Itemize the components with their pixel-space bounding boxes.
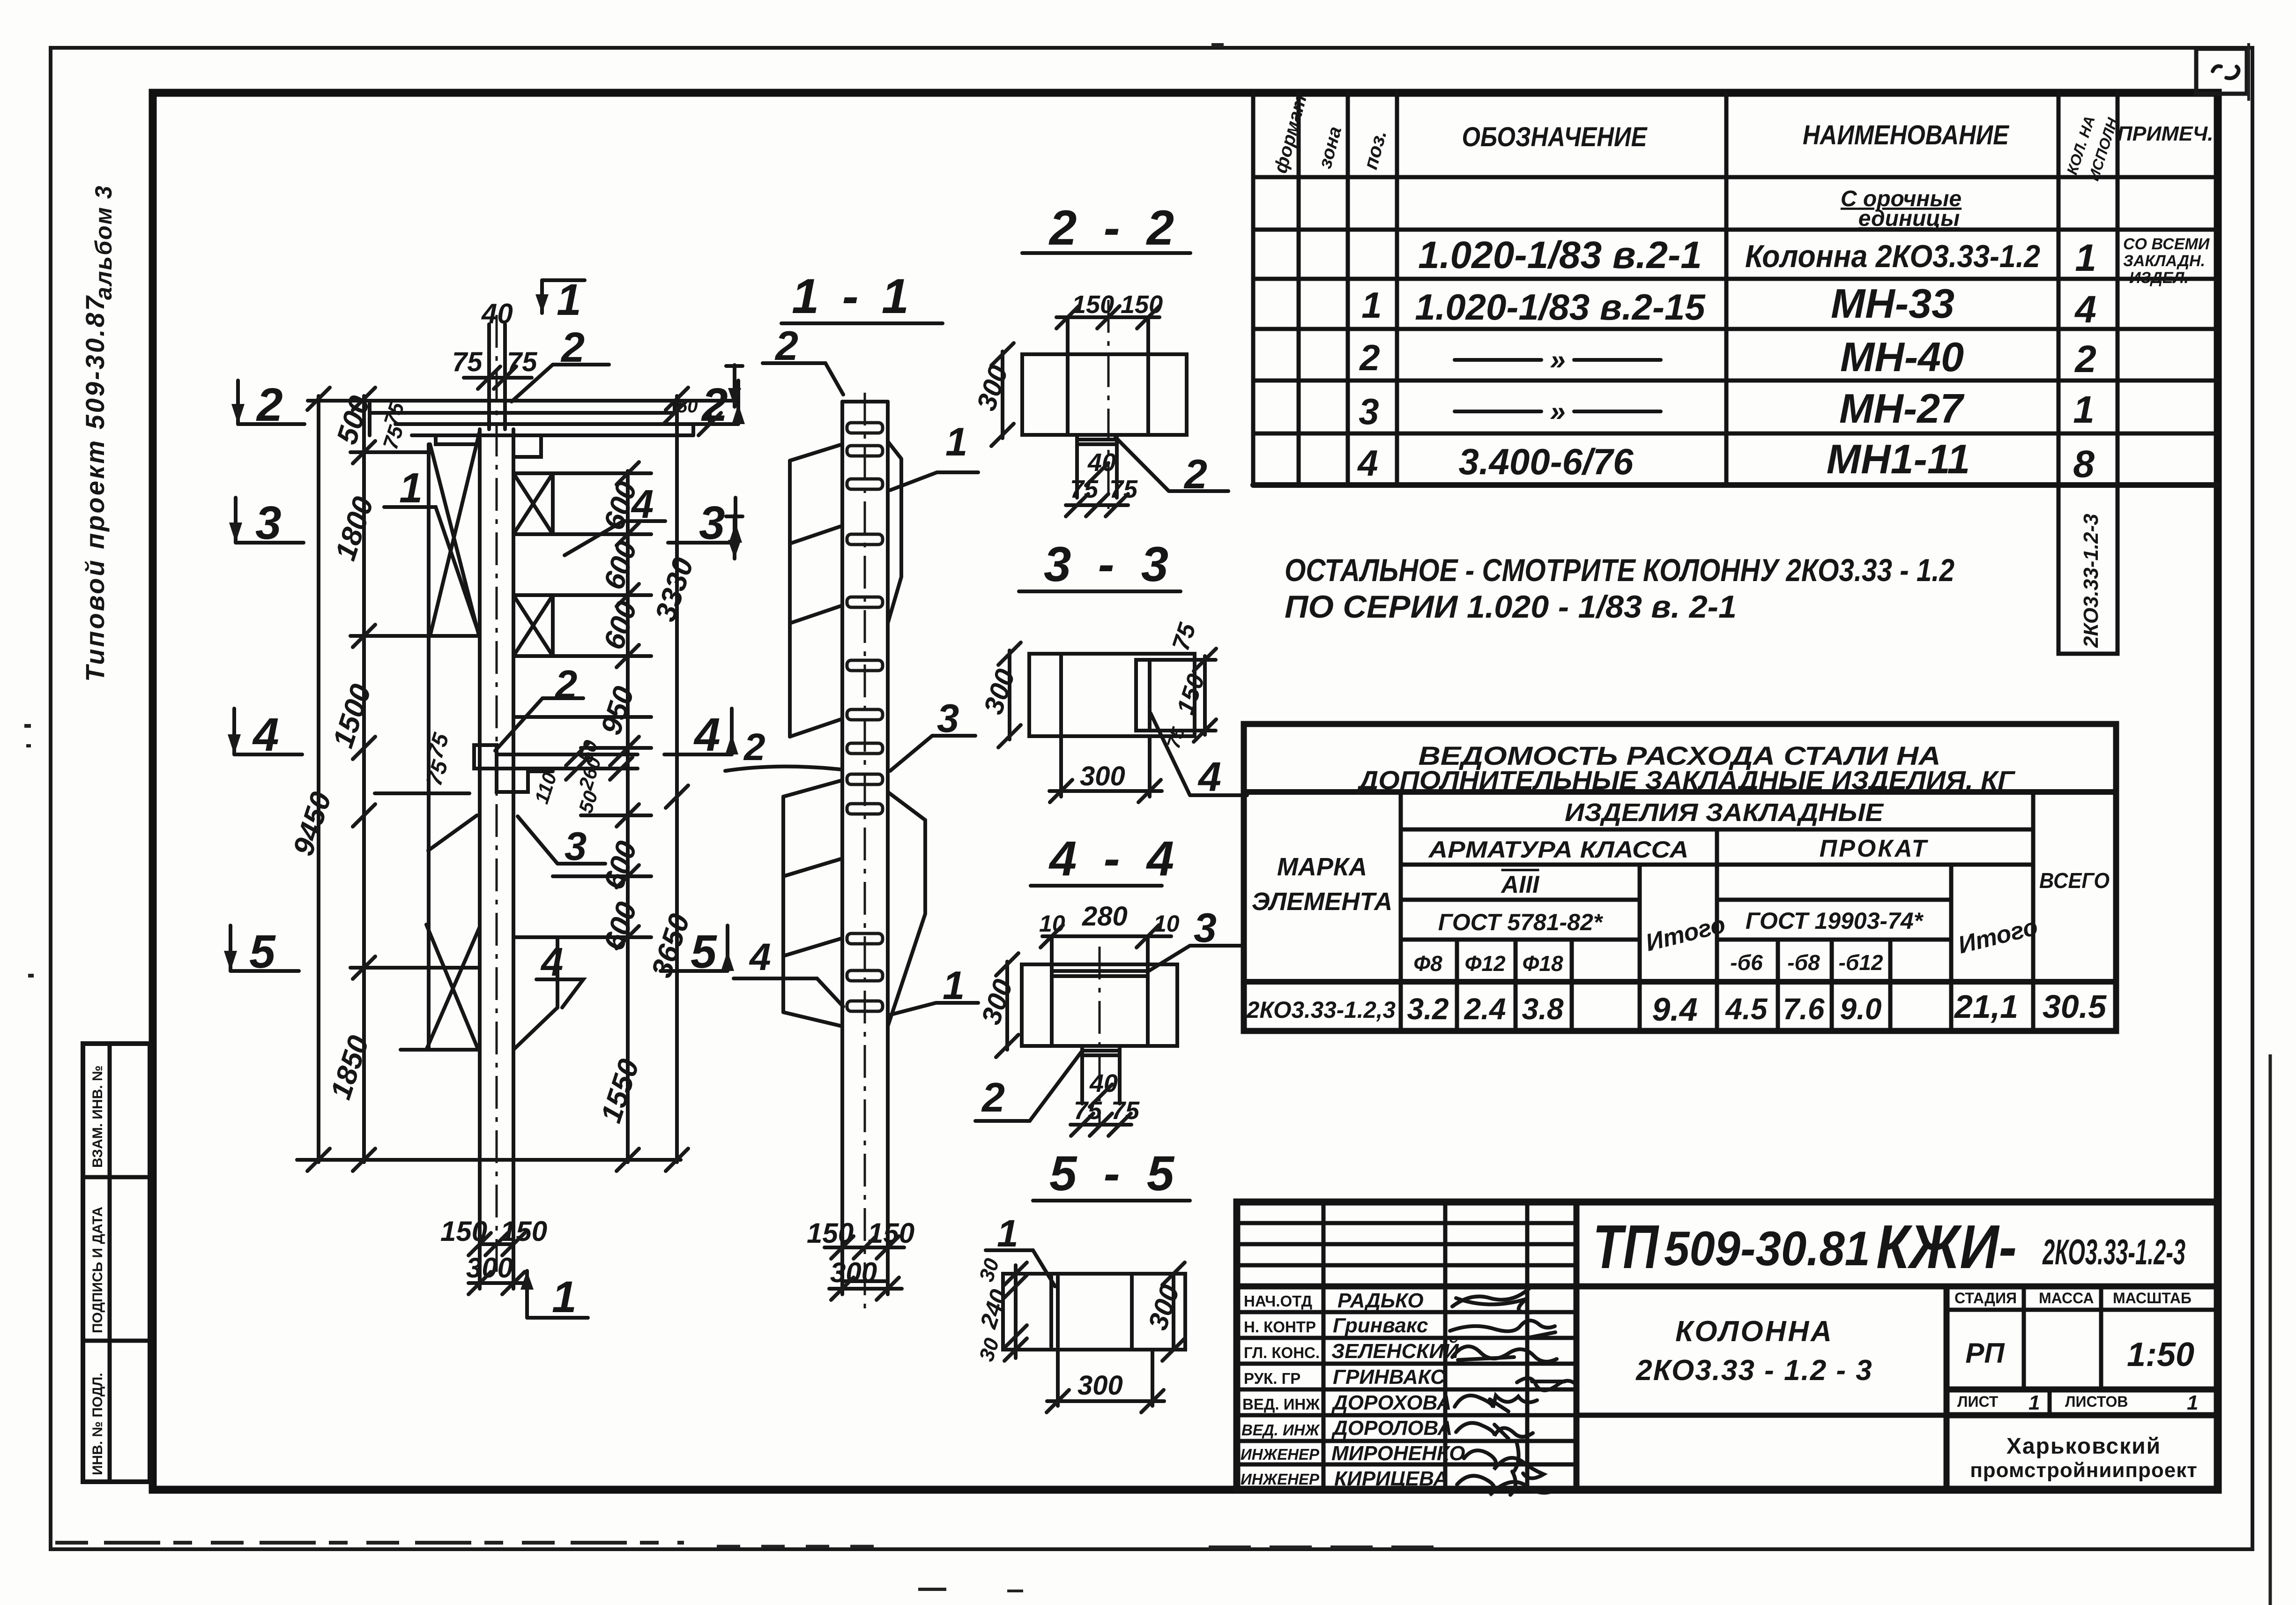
svg-text:300: 300: [466, 1252, 513, 1284]
svg-text:ИНВ. № ПОДЛ.: ИНВ. № ПОДЛ.: [90, 1373, 105, 1475]
svg-text:МН-27: МН-27: [1839, 385, 1965, 432]
svg-text:МАРКА: МАРКА: [1277, 853, 1367, 881]
svg-text:единицы: единицы: [1858, 206, 1960, 231]
svg-text:ГОСТ 19903-74*: ГОСТ 19903-74*: [1746, 908, 1924, 934]
svg-text:4.5: 4.5: [1725, 992, 1768, 1026]
svg-text:4: 4: [693, 709, 721, 761]
svg-text:ОСТАЛЬНОЕ - СМОТРИТЕ КОЛОННУ: ОСТАЛЬНОЕ - СМОТРИТЕ КОЛОННУ 2КО3.33 - 1…: [1285, 552, 1954, 588]
svg-text:ЗЕЛЕНСКИЙ: ЗЕЛЕНСКИЙ: [1331, 1339, 1459, 1363]
svg-text:СО ВСЕМИ: СО ВСЕМИ: [2123, 235, 2210, 253]
svg-text:1: 1: [2187, 1391, 2198, 1414]
svg-text:ДОРОХОВА: ДОРОХОВА: [1331, 1391, 1451, 1414]
svg-text:Колонна 2КО3.33-1.2: Колонна 2КО3.33-1.2: [1745, 239, 2040, 274]
svg-text:1: 1: [2075, 237, 2096, 279]
svg-text:1: 1: [2029, 1391, 2040, 1414]
svg-text:АРМАТУРА КЛАССА: АРМАТУРА КЛАССА: [1427, 836, 1688, 863]
svg-text:1: 1: [1361, 284, 1382, 326]
svg-text:3.400-6/76: 3.400-6/76: [1459, 441, 1634, 482]
svg-text:НАЧ.ОТД: НАЧ.ОТД: [1244, 1292, 1312, 1310]
svg-text:2КО3.33-1.2-3: 2КО3.33-1.2-3: [2042, 1232, 2185, 1272]
svg-text:2 - 2: 2 - 2: [1048, 201, 1181, 255]
svg-text:509-30.81: 509-30.81: [1664, 1222, 1870, 1276]
svg-text:1: 1: [945, 420, 967, 464]
svg-text:ГРИНВАКС: ГРИНВАКС: [1333, 1366, 1446, 1389]
svg-text:Н. КОНТР: Н. КОНТР: [1244, 1318, 1316, 1336]
svg-text:3 - 3: 3 - 3: [1044, 537, 1175, 592]
svg-text:ИНЖЕНЕР: ИНЖЕНЕР: [1241, 1446, 1320, 1463]
svg-text:1: 1: [552, 1272, 577, 1322]
svg-text:9.0: 9.0: [1840, 992, 1882, 1026]
svg-text:9.4: 9.4: [1652, 991, 1697, 1028]
svg-text:1: 1: [557, 275, 581, 325]
svg-text:СТАДИЯ: СТАДИЯ: [1954, 1290, 2017, 1306]
svg-text:ИЗДЕЛИЯ ЗАКЛАДНЫЕ: ИЗДЕЛИЯ ЗАКЛАДНЫЕ: [1565, 799, 1884, 827]
svg-text:АIII: АIII: [1501, 871, 1540, 898]
svg-text:»: »: [1550, 344, 1565, 375]
svg-text:10: 10: [1153, 911, 1180, 937]
svg-text:4 - 4: 4 - 4: [1048, 831, 1181, 886]
svg-text:1: 1: [399, 465, 423, 512]
svg-text:2: 2: [743, 726, 765, 769]
svg-text:ОБОЗНАЧЕНИЕ: ОБОЗНАЧЕНИЕ: [1462, 122, 1648, 152]
svg-text:Гринвакс: Гринвакс: [1333, 1314, 1428, 1337]
svg-text:Ф12: Ф12: [1464, 951, 1505, 976]
svg-text:3.8: 3.8: [1522, 992, 1564, 1026]
svg-text:КЖИ-: КЖИ-: [1876, 1212, 2017, 1281]
svg-text:НАИМЕНОВАНИЕ: НАИМЕНОВАНИЕ: [1803, 120, 2010, 150]
svg-text:4: 4: [1357, 442, 1378, 484]
svg-text:4: 4: [1197, 754, 1221, 800]
svg-text:2.4: 2.4: [1464, 992, 1506, 1026]
svg-text:5: 5: [691, 926, 717, 978]
svg-text:2: 2: [1359, 337, 1380, 378]
svg-text:3: 3: [255, 497, 282, 549]
svg-text:ИЗДЕЛ.: ИЗДЕЛ.: [2129, 269, 2189, 287]
svg-text:ДОРОЛОВА: ДОРОЛОВА: [1331, 1417, 1452, 1440]
svg-text:1.020-1/83 в.2-1: 1.020-1/83 в.2-1: [1418, 234, 1702, 276]
svg-text:ЗАКЛАДН.: ЗАКЛАДН.: [2123, 252, 2205, 270]
svg-text:МН1-11: МН1-11: [1827, 436, 1970, 482]
svg-text:Харьковский: Харьковский: [2006, 1434, 2161, 1459]
svg-text:ЛИСТ: ЛИСТ: [1957, 1393, 1999, 1410]
svg-text:1.020-1/83 в.2-15: 1.020-1/83 в.2-15: [1415, 286, 1706, 328]
svg-text:ВЕД. ИНЖ: ВЕД. ИНЖ: [1241, 1421, 1321, 1439]
svg-text:2КО3.33-1.2,3: 2КО3.33-1.2,3: [1246, 997, 1396, 1023]
svg-text:280: 280: [1082, 901, 1128, 932]
svg-text:ЛИСТОВ: ЛИСТОВ: [2065, 1393, 2128, 1410]
svg-text:30.5: 30.5: [2043, 988, 2107, 1025]
svg-text:МИРОНЕНКО: МИРОНЕНКО: [1331, 1442, 1465, 1465]
svg-text:-б8: -б8: [1787, 950, 1820, 975]
svg-text:3: 3: [1359, 391, 1379, 432]
svg-text:Ф8: Ф8: [1413, 951, 1442, 976]
svg-text:МН-33: МН-33: [1831, 280, 1954, 327]
svg-text:ПО СЕРИИ 1.020 - 1/83 в. 2: ПО СЕРИИ 1.020 - 1/83 в. 2-1: [1285, 589, 1737, 625]
svg-text:МН-40: МН-40: [1840, 334, 1964, 380]
svg-text:ГОСТ 5781-82*: ГОСТ 5781-82*: [1438, 909, 1604, 935]
svg-text:4: 4: [252, 709, 279, 761]
svg-text:5: 5: [249, 926, 276, 978]
svg-text:8: 8: [2073, 443, 2095, 485]
svg-text:РУК. ГР: РУК. ГР: [1244, 1370, 1300, 1387]
svg-text:2: 2: [256, 379, 283, 431]
svg-text:ЭЛЕМЕНТА: ЭЛЕМЕНТА: [1252, 888, 1393, 916]
svg-text:2: 2: [554, 663, 577, 707]
svg-text:ВСЕГО: ВСЕГО: [2039, 868, 2110, 893]
svg-text:ПРОКАТ: ПРОКАТ: [1820, 835, 1929, 862]
svg-text:2КО3.33-1.2-3: 2КО3.33-1.2-3: [2080, 514, 2103, 648]
svg-text:2: 2: [981, 1074, 1005, 1120]
svg-text:3: 3: [699, 497, 725, 549]
svg-text:300: 300: [1080, 761, 1125, 791]
svg-text:300: 300: [1077, 1370, 1123, 1401]
svg-text:150: 150: [1121, 291, 1163, 319]
svg-text:РАДЬКО: РАДЬКО: [1337, 1289, 1424, 1312]
svg-text:КОЛОННА: КОЛОННА: [1675, 1315, 1834, 1348]
svg-text:7.6: 7.6: [1783, 992, 1825, 1026]
svg-text:ДОПОЛНИТЕЛЬНЫЕ ЗАКЛАДНЫЕ: ДОПОЛНИТЕЛЬНЫЕ ЗАКЛАДНЫЕ ИЗДЕЛИЯ, КГ: [1357, 765, 2016, 795]
svg-text:21,1: 21,1: [1954, 988, 2018, 1025]
svg-text:300: 300: [830, 1257, 877, 1288]
svg-text:ВЗАМ. ИНВ. №: ВЗАМ. ИНВ. №: [90, 1066, 105, 1168]
svg-text:ГЛ. КОНС.: ГЛ. КОНС.: [1244, 1344, 1320, 1361]
svg-text:»: »: [1550, 396, 1565, 427]
svg-text:промстройниипроект: промстройниипроект: [1970, 1459, 2198, 1482]
svg-text:ТП: ТП: [1593, 1212, 1659, 1281]
svg-text:ВЕД. ИНЖ: ВЕД. ИНЖ: [1242, 1396, 1320, 1413]
svg-text:1: 1: [2073, 388, 2095, 431]
svg-text:ПОДПИСЬ И ДАТА: ПОДПИСЬ И ДАТА: [90, 1207, 105, 1333]
svg-text:РП: РП: [1965, 1337, 2005, 1369]
svg-text:75: 75: [452, 347, 483, 377]
svg-text:-б12: -б12: [1839, 950, 1883, 975]
svg-text:4: 4: [2074, 288, 2096, 331]
svg-text:2: 2: [2074, 338, 2096, 381]
svg-text:1:50: 1:50: [2127, 1336, 2194, 1374]
svg-text:Ф18: Ф18: [1522, 951, 1563, 976]
svg-text:ПРИМЕЧ.: ПРИМЕЧ.: [2118, 122, 2214, 145]
svg-text:Типовой проект 509-30.87: Типовой проект 509-30.87: [80, 294, 110, 682]
svg-text:5 - 5: 5 - 5: [1049, 1146, 1181, 1201]
svg-text:альбом 3: альбом 3: [90, 185, 117, 300]
svg-text:40: 40: [481, 298, 513, 329]
svg-text:10: 10: [1039, 911, 1065, 937]
svg-text:МАССА: МАССА: [2039, 1290, 2094, 1306]
svg-text:-б6: -б6: [1730, 950, 1763, 975]
svg-text:2КО3.33 - 1.2 - 3: 2КО3.33 - 1.2 - 3: [1635, 1354, 1873, 1387]
svg-text:ИНЖЕНЕР: ИНЖЕНЕР: [1241, 1471, 1320, 1488]
svg-text:1 - 1: 1 - 1: [792, 269, 914, 324]
svg-text:МАСШТАБ: МАСШТАБ: [2113, 1290, 2192, 1306]
svg-text:4: 4: [749, 936, 771, 978]
svg-text:3.2: 3.2: [1407, 992, 1449, 1026]
svg-text:КИРИЦЕВА: КИРИЦЕВА: [1334, 1467, 1448, 1490]
